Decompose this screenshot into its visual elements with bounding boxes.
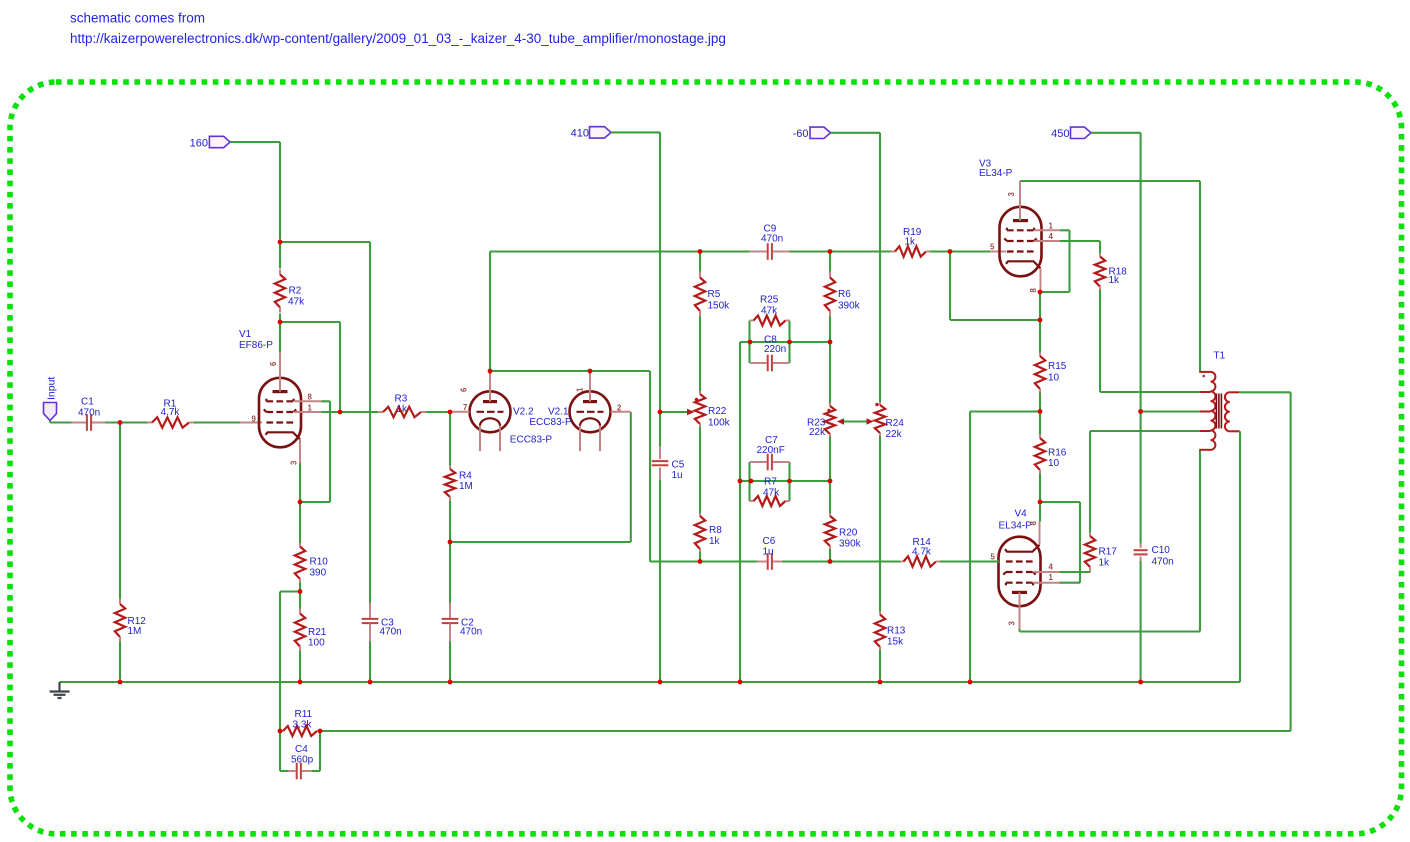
svg-text:R25: R25 [760, 295, 779, 306]
svg-text:1: 1 [1049, 573, 1054, 582]
svg-text:ECC83-P: ECC83-P [510, 435, 553, 446]
svg-text:22k: 22k [886, 429, 903, 440]
svg-text:C5: C5 [672, 460, 685, 471]
svg-text:EF86-P: EF86-P [239, 340, 273, 351]
svg-text:1u: 1u [672, 470, 683, 481]
svg-text:1k: 1k [1099, 558, 1111, 569]
svg-text:10: 10 [1048, 458, 1060, 469]
svg-text:1k: 1k [397, 404, 409, 415]
svg-text:EL34-P: EL34-P [999, 521, 1033, 532]
svg-text:EL34-P: EL34-P [979, 168, 1013, 179]
svg-text:R3: R3 [395, 394, 408, 405]
svg-text:560p: 560p [291, 755, 314, 766]
svg-text:R10: R10 [310, 557, 329, 568]
svg-text:47k: 47k [761, 306, 778, 317]
svg-text:R4: R4 [459, 471, 472, 482]
svg-text:R15: R15 [1048, 361, 1067, 372]
svg-text:1k: 1k [1109, 275, 1121, 286]
svg-text:1: 1 [308, 403, 313, 412]
svg-text:R17: R17 [1099, 547, 1118, 558]
svg-text:470n: 470n [380, 627, 402, 638]
svg-text:10: 10 [1048, 373, 1060, 384]
svg-text:3: 3 [290, 460, 299, 465]
svg-text:R11: R11 [295, 709, 313, 720]
svg-text:R5: R5 [708, 289, 721, 300]
svg-text:R24: R24 [886, 418, 905, 429]
svg-text:4.7k: 4.7k [161, 407, 181, 418]
svg-text:3: 3 [1008, 621, 1017, 626]
svg-text:15k: 15k [887, 637, 904, 648]
svg-text:390k: 390k [839, 539, 862, 550]
svg-text:V1: V1 [239, 329, 252, 340]
svg-text:R21: R21 [308, 627, 327, 638]
svg-text:1M: 1M [459, 481, 473, 492]
svg-text:390: 390 [310, 568, 327, 579]
svg-text:http://kaizerpowerelectronics.: http://kaizerpowerelectronics.dk/wp-cont… [70, 31, 726, 46]
svg-text:47k: 47k [763, 488, 780, 499]
svg-text:R20: R20 [839, 528, 858, 539]
svg-text:Input: Input [46, 377, 58, 400]
svg-text:4: 4 [1049, 563, 1054, 572]
svg-text:470n: 470n [78, 408, 100, 419]
svg-text:ECC83-P: ECC83-P [529, 417, 572, 428]
svg-text:220n: 220n [764, 344, 786, 355]
svg-text:4: 4 [1049, 232, 1054, 241]
svg-text:schematic comes from: schematic comes from [70, 11, 205, 26]
svg-text:100: 100 [308, 638, 325, 649]
svg-text:150k: 150k [708, 301, 731, 312]
svg-text:8: 8 [308, 393, 313, 402]
svg-text:9: 9 [252, 414, 257, 423]
svg-text:1u: 1u [763, 547, 774, 558]
svg-text:4.7k: 4.7k [912, 547, 932, 558]
svg-text:470n: 470n [761, 234, 783, 245]
svg-text:470n: 470n [1152, 557, 1174, 568]
svg-text:C4: C4 [295, 744, 308, 755]
svg-text:6: 6 [460, 387, 469, 392]
svg-text:47k: 47k [288, 297, 305, 308]
svg-text:2: 2 [617, 403, 622, 412]
svg-text:470n: 470n [460, 627, 482, 638]
svg-text:R13: R13 [887, 626, 906, 637]
svg-text:R8: R8 [709, 525, 722, 536]
svg-text:450: 450 [1051, 128, 1069, 140]
svg-text:R7: R7 [764, 477, 777, 488]
svg-text:6: 6 [269, 361, 278, 366]
svg-text:R2: R2 [289, 286, 302, 297]
svg-text:160: 160 [190, 137, 208, 149]
svg-text:8: 8 [1029, 521, 1038, 526]
svg-text:100k: 100k [708, 418, 731, 429]
svg-text:-60: -60 [793, 128, 809, 140]
svg-text:1: 1 [1049, 222, 1054, 231]
svg-text:C6: C6 [763, 536, 776, 547]
svg-text:C1: C1 [81, 397, 94, 408]
svg-text:T1: T1 [1214, 351, 1226, 362]
svg-text:3: 3 [1007, 192, 1016, 197]
svg-text:3.3k: 3.3k [293, 720, 313, 731]
svg-text:V4: V4 [1015, 509, 1028, 520]
svg-text:1M: 1M [128, 626, 142, 637]
svg-text:8: 8 [1029, 288, 1038, 293]
svg-text:1k: 1k [905, 237, 917, 248]
svg-text:22k: 22k [809, 427, 826, 438]
svg-text:7: 7 [463, 403, 467, 412]
svg-text:410: 410 [571, 128, 589, 140]
svg-text:390k: 390k [838, 301, 861, 312]
svg-text:1k: 1k [709, 536, 721, 547]
svg-text:220nF: 220nF [757, 445, 785, 456]
svg-text:R22: R22 [708, 406, 727, 417]
svg-text:R16: R16 [1048, 448, 1067, 459]
svg-text:R6: R6 [838, 289, 851, 300]
svg-text:1: 1 [576, 387, 585, 392]
svg-text:C10: C10 [1152, 545, 1171, 556]
svg-text:5: 5 [991, 553, 996, 562]
svg-text:5: 5 [990, 243, 995, 252]
